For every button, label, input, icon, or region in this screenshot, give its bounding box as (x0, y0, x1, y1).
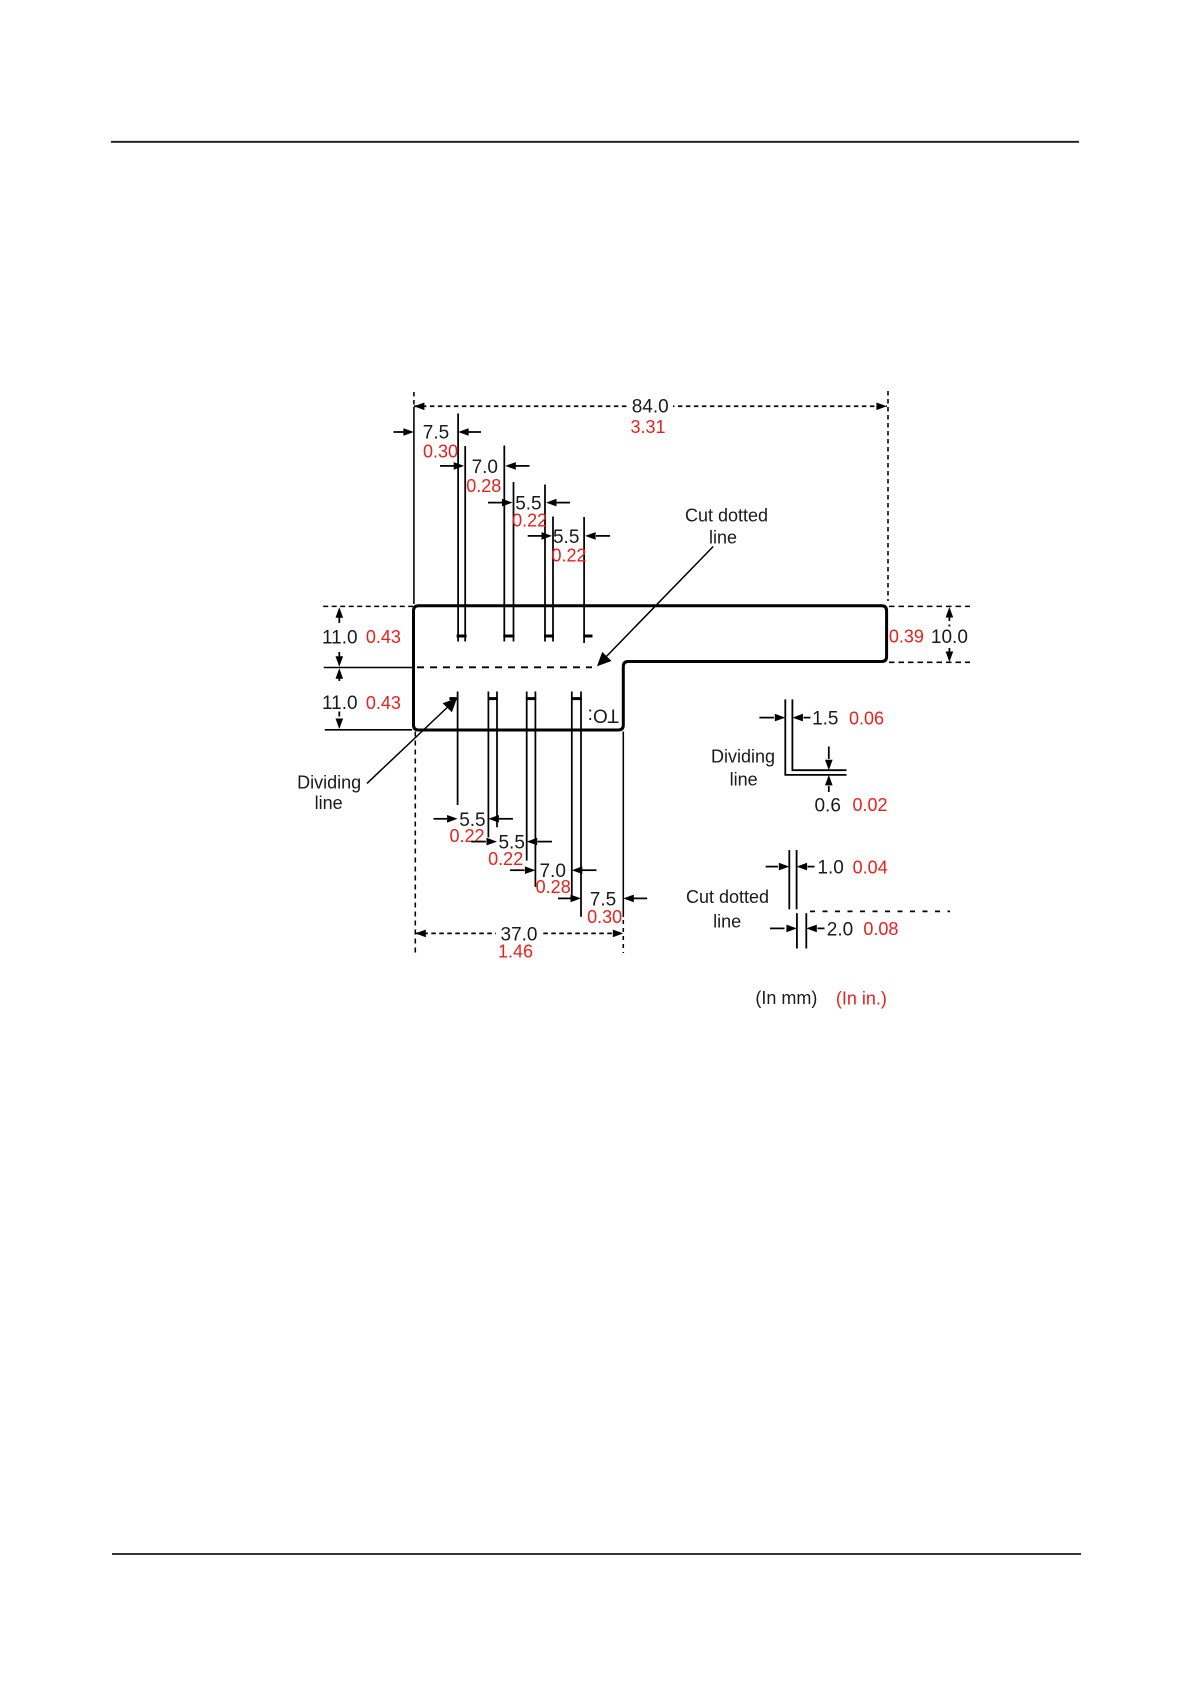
detail cut dotted dim 1.0 inch value 0.04 (853, 857, 888, 877)
leader for Dividing line label (367, 698, 457, 783)
bottom pin 3 (526, 692, 536, 887)
svg-text:Cut dotted: Cut dotted (685, 505, 768, 525)
dim 11.0 lower inch value 0.43 (366, 693, 401, 713)
detail: cut dotted line cross-section lower pair (797, 913, 806, 948)
label outline (main shape) (414, 606, 887, 730)
dim 37.0 extension line right (622, 732, 624, 954)
svg-text:10.0: 10.0 (931, 627, 968, 648)
svg-text:TO:: TO: (588, 704, 619, 725)
dim 37.0 line (415, 923, 623, 943)
svg-text:Dividing: Dividing (297, 772, 361, 792)
svg-text:84.0: 84.0 (632, 397, 669, 418)
detail cut dotted dim 2.0 inch value 0.08 (863, 919, 898, 939)
detail cut dotted dim 1.0 (766, 858, 844, 879)
top pin 4 (583, 517, 592, 643)
dim 11.0 lower value (322, 693, 358, 714)
detail dividing line dim 1.5 (759, 709, 838, 730)
bottom dim 7.5 (558, 889, 647, 910)
svg-text:line: line (730, 770, 758, 790)
TO: text (rotated 180) (588, 704, 619, 725)
cut dotted line inside shape (417, 666, 592, 668)
svg-text:line: line (709, 527, 737, 547)
svg-text:line: line (315, 793, 343, 813)
bottom dim 5.5 second (471, 833, 552, 854)
detail cut dotted dim 2.0 (770, 919, 853, 940)
dim 5.5 top first inch value 0.22 (512, 511, 547, 531)
right dim 10.0: top dashed extension (889, 605, 970, 607)
detail dividing line label (711, 747, 775, 790)
svg-text:0.22: 0.22 (512, 511, 547, 531)
leader for Cut dotted line label (597, 547, 713, 667)
left dims: top dashed extension (323, 605, 413, 607)
detail: dividing line cross-section (785, 699, 846, 775)
svg-text:line: line (713, 912, 741, 932)
svg-text:2.0: 2.0 (827, 919, 853, 940)
units note (In in.) (836, 988, 887, 1008)
svg-text:0.6: 0.6 (814, 795, 840, 816)
label Dividing line (left) (297, 772, 361, 813)
bottom dim 7.0 (510, 861, 597, 882)
bottom pin 2 (488, 692, 498, 838)
dim 84.0 inch value 3.31 (630, 417, 665, 437)
svg-text:7.5: 7.5 (423, 422, 449, 443)
dim 11.0 upper value (322, 627, 358, 648)
top horizontal rule (111, 141, 1079, 143)
svg-text:0.08: 0.08 (863, 919, 898, 939)
dim 7.5 inch value 0.30 (423, 441, 458, 461)
svg-text:1.46: 1.46 (498, 941, 533, 961)
svg-text:Dividing: Dividing (711, 747, 775, 767)
svg-text:0.39: 0.39 (889, 626, 924, 646)
dim 5.5 top second (528, 527, 610, 548)
dim 37.0 extension line left (dashed) (414, 732, 416, 957)
detail: cut dotted dashed line (810, 910, 950, 912)
bottom dim 7.5 inch value 0.30 (587, 907, 622, 927)
svg-text:1.0: 1.0 (817, 858, 843, 879)
dim 7.5 top (394, 422, 482, 443)
svg-text:3.31: 3.31 (630, 417, 665, 437)
svg-text:11.0: 11.0 (322, 693, 358, 714)
top pin 1 (457, 414, 467, 642)
svg-text:0.06: 0.06 (849, 708, 884, 728)
dim 7.0 top (440, 457, 530, 478)
dim 37.0 inch value 1.46 (498, 941, 533, 961)
dim 84.0 extension line left (413, 392, 415, 604)
bottom dim 5.5 first (434, 810, 513, 831)
svg-text:(In mm): (In mm) (755, 988, 817, 1008)
svg-text:0.43: 0.43 (366, 693, 401, 713)
detail cut dotted line label (686, 887, 769, 932)
svg-text:0.22: 0.22 (551, 545, 586, 565)
svg-text:1.5: 1.5 (812, 709, 838, 730)
svg-text:0.22: 0.22 (449, 826, 484, 846)
svg-text:0.22: 0.22 (488, 849, 523, 869)
detail dividing line dim 1.5 inch value 0.06 (849, 708, 884, 728)
svg-text:0.02: 0.02 (852, 795, 887, 815)
svg-text:Cut dotted: Cut dotted (686, 887, 769, 907)
bottom dim 5.5 first inch value 0.22 (449, 826, 484, 846)
bottom horizontal rule (112, 1553, 1081, 1555)
svg-text:11.0: 11.0 (322, 627, 358, 648)
svg-text:0.04: 0.04 (853, 857, 888, 877)
svg-text:0.28: 0.28 (466, 476, 501, 496)
right dim 10.0: bottom dashed extension (889, 661, 970, 663)
left dims: bottom extension line (325, 729, 412, 731)
dim 5.5 top second inch value 0.22 (551, 545, 586, 565)
svg-text:(In in.): (In in.) (836, 988, 887, 1008)
svg-text:0.43: 0.43 (366, 627, 401, 647)
bottom pin 1 (449, 692, 458, 806)
bottom dim 7.0 inch value 0.28 (536, 877, 571, 897)
dim 11.0 upper inch value 0.43 (366, 627, 401, 647)
svg-text:7.0: 7.0 (472, 457, 498, 478)
dim 84.0 line (414, 395, 887, 415)
detail dividing line dim 0.6 inch value 0.02 (852, 795, 887, 815)
dim 37.0 value (501, 924, 538, 945)
right dim value 10.0 (931, 627, 968, 648)
left dims: middle extension line (324, 667, 413, 669)
units note (In mm) (755, 988, 817, 1008)
detail: cut dotted line cross-section upper pair (789, 850, 796, 909)
svg-text:0.28: 0.28 (536, 877, 571, 897)
label Cut dotted line (top) (685, 505, 768, 547)
bottom dim 5.5 second inch value 0.22 (488, 849, 523, 869)
top pin 2 (503, 446, 514, 642)
svg-text:0.30: 0.30 (587, 907, 622, 927)
dim 5.5 top first (488, 494, 570, 515)
dim 84.0 extension line right (887, 391, 889, 601)
top pin 3 (544, 485, 554, 642)
dim 84.0 value (632, 397, 669, 418)
dim 11.0 upper arrows (336, 607, 344, 667)
right dim 10.0 arrows (946, 607, 954, 662)
detail dividing line dim 0.6 (814, 747, 840, 817)
dim 11.0 lower arrows (336, 668, 344, 729)
dim 7.0 inch value 0.28 (466, 476, 501, 496)
bottom pin 4 (571, 692, 582, 917)
right dim inch value 0.39 (889, 626, 924, 646)
svg-text:0.30: 0.30 (423, 441, 458, 461)
